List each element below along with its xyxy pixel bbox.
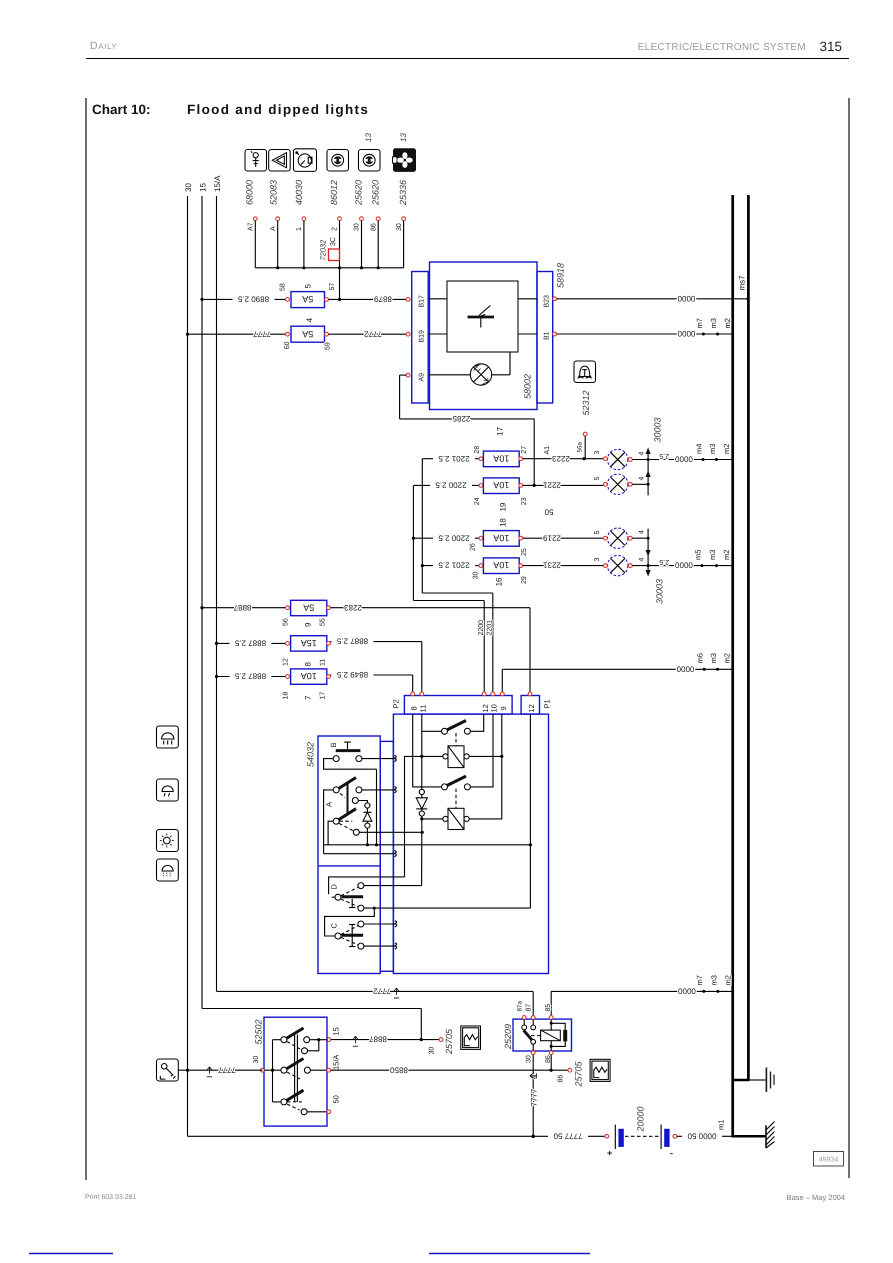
svg-text:5: 5	[594, 477, 601, 481]
svg-text:30003: 30003	[655, 579, 665, 604]
wire 7777 relay 30 to battery line	[529, 1055, 538, 1137]
svg-text:Flood and dipped lights: Flood and dipped lights	[187, 102, 369, 117]
svg-text:4: 4	[305, 317, 314, 322]
earth wire to connector P1 pin 12 (inside unit)	[374, 845, 530, 908]
connector stub 2 to 86012 through connector 72032	[332, 217, 342, 300]
lamp earth collector (down arrows)	[632, 529, 651, 577]
inline connector strip of 54032	[380, 741, 393, 971]
svg-text:8850: 8850	[390, 1065, 408, 1074]
svg-text:-: -	[670, 1148, 673, 1158]
svg-text:11: 11	[320, 659, 327, 666]
svg-text:40030: 40030	[294, 180, 304, 205]
svg-text:5A: 5A	[302, 294, 313, 304]
ignition switch 52502 internals	[253, 1027, 341, 1115]
svg-text:10: 10	[490, 704, 499, 712]
wire 0000 2.5 to bus m (m5 m3 m2)	[648, 550, 732, 570]
svg-text:A: A	[325, 802, 334, 807]
svg-text:30: 30	[428, 1047, 435, 1055]
svg-text:86: 86	[558, 1075, 565, 1083]
light switch unit box (outer)	[393, 714, 548, 973]
relay contact 2 inside light switch unit	[413, 714, 493, 808]
battery 20000	[607, 1106, 677, 1158]
svg-text:55: 55	[320, 618, 327, 626]
svg-text:m2: m2	[723, 653, 732, 663]
connector strip B23/B1 (right of 58002)	[537, 272, 553, 404]
fuse 4 (5A)	[186, 317, 332, 350]
wire 0000 B23 to bus ms7	[553, 275, 750, 303]
svg-text:0000: 0000	[675, 455, 693, 464]
svg-text:85: 85	[545, 1004, 552, 1012]
svg-text:59: 59	[325, 342, 332, 350]
fuse 18 (10A) row 2219	[412, 531, 604, 556]
svg-text:54032: 54032	[306, 742, 316, 767]
svg-text:25336: 25336	[398, 180, 408, 206]
svg-text:72032: 72032	[318, 239, 327, 261]
wire 2283 to connector P1 pin 12	[330, 603, 530, 692]
ground bus bar m (right, main)	[731, 195, 734, 1136]
svg-text:17: 17	[496, 426, 505, 435]
svg-text:87a: 87a	[516, 1000, 523, 1011]
svg-text:8: 8	[410, 706, 419, 710]
svg-text:58002: 58002	[523, 374, 533, 399]
icon box hazard triangle 52083	[268, 150, 290, 206]
svg-text:B23: B23	[544, 295, 551, 308]
svg-text:2231: 2231	[543, 561, 561, 570]
icon box heater fan 25336	[393, 149, 416, 206]
svg-text:m3: m3	[709, 653, 718, 663]
icon front fog	[157, 859, 179, 881]
svg-text:27: 27	[521, 446, 528, 454]
svg-text:4: 4	[639, 530, 646, 534]
svg-text:23: 23	[521, 497, 528, 505]
footer blue link lines	[29, 1253, 113, 1255]
svg-text:m7: m7	[695, 975, 704, 985]
connector P1	[521, 692, 551, 714]
connector stub 30 to 25336	[396, 217, 406, 268]
svg-text:m4: m4	[695, 444, 704, 454]
wire label overlays	[230, 295, 723, 1140]
svg-text:0000: 0000	[677, 329, 695, 338]
svg-text:Chart 10:: Chart 10:	[92, 102, 151, 117]
svg-text:4: 4	[639, 558, 646, 562]
svg-text:17: 17	[320, 692, 327, 700]
m1 ground link (thick)	[732, 1135, 766, 1138]
wire 2201 to connector P2 pin 10	[422, 459, 493, 693]
svg-text:m5: m5	[693, 550, 702, 560]
relay contact 1 inside light switch unit	[422, 714, 484, 746]
svg-text:15/A: 15/A	[213, 175, 222, 192]
svg-text:25705: 25705	[574, 1060, 584, 1087]
supply wire 15 (vertical)	[198, 183, 207, 1009]
svg-text:28: 28	[474, 446, 481, 454]
svg-text:50: 50	[332, 1095, 341, 1103]
svg-text:25: 25	[521, 548, 528, 556]
svg-text:87: 87	[526, 1004, 533, 1012]
svg-text:5: 5	[594, 531, 601, 535]
svg-text:A1: A1	[544, 446, 551, 455]
svg-text:18: 18	[499, 518, 508, 527]
wire 0000 relay 85 to bus m (m7 m3 m2)	[551, 975, 732, 1016]
svg-text:B19: B19	[418, 330, 425, 343]
svg-text:2283: 2283	[344, 603, 362, 612]
fuse 9 (5A) wire 8887/2283	[200, 600, 330, 627]
wire 0000 50 battery to bus m1	[677, 1120, 732, 1141]
bottom earth wire 7777 50	[188, 1131, 609, 1140]
supply wire 15/A (vertical)	[213, 175, 222, 992]
terminal 56a stub	[577, 432, 588, 459]
wire 2285	[400, 414, 535, 485]
connector P2	[392, 692, 513, 714]
connector 72032 pin 3C (red box)	[318, 237, 339, 260]
svg-text:P2: P2	[392, 699, 401, 708]
bus wire joining icon stubs	[255, 266, 403, 269]
svg-text:m3: m3	[708, 444, 717, 454]
fuse 8 (15A) wire 8887 2.5	[215, 636, 331, 667]
svg-text:3: 3	[594, 451, 601, 455]
icon side lights	[157, 830, 179, 852]
svg-text:2.5: 2.5	[659, 452, 669, 459]
right page border	[848, 98, 850, 1178]
chart title	[92, 102, 369, 117]
svg-text:15/A: 15/A	[332, 1055, 341, 1070]
svg-text:m2: m2	[722, 444, 731, 454]
wire 2200 to connector P2 pin 12	[413, 485, 485, 692]
svg-text:m3: m3	[708, 550, 717, 560]
svg-text:56a: 56a	[577, 441, 584, 452]
svg-text:20000: 20000	[636, 1106, 646, 1132]
wire 0000 B1 to bus m (m7 m3 m2)	[553, 318, 732, 338]
svg-text:5A: 5A	[302, 329, 313, 339]
relay coil 1 inside light switch unit	[405, 746, 504, 877]
svg-text:49934: 49934	[819, 1157, 839, 1164]
ignition key icon	[157, 1059, 179, 1081]
connector stub 1 to 40030	[296, 217, 306, 268]
svg-text:Print 603.93.281: Print 603.93.281	[85, 1193, 136, 1201]
header rule	[86, 58, 849, 60]
svg-text:2223: 2223	[552, 454, 570, 463]
svg-text:8: 8	[304, 662, 313, 667]
icon interior light 52312	[574, 361, 596, 416]
svg-text:10A: 10A	[493, 453, 509, 463]
svg-text:P1: P1	[543, 699, 552, 708]
svg-text:11: 11	[419, 705, 428, 713]
svg-text:2285: 2285	[452, 414, 470, 423]
svg-text:2.5: 2.5	[659, 558, 669, 565]
svg-text:57: 57	[329, 283, 336, 291]
svg-text:10A: 10A	[493, 480, 509, 490]
wire 8849 2.5 to connector P2 pin 8	[330, 670, 412, 692]
svg-text:30: 30	[354, 223, 361, 231]
svg-text:7: 7	[304, 695, 313, 700]
svg-text:3: 3	[594, 558, 601, 562]
svg-text:30: 30	[396, 223, 403, 231]
svg-text:0000: 0000	[678, 987, 696, 996]
svg-text:2201: 2201	[487, 620, 494, 636]
svg-text:m1: m1	[717, 1120, 726, 1130]
svg-text:58918: 58918	[556, 263, 566, 288]
wire switch A feed to relay line	[421, 832, 423, 885]
svg-text:m3: m3	[709, 318, 718, 328]
headlamp unit 58002 (outer box)	[430, 262, 538, 410]
svg-text:30: 30	[473, 571, 480, 579]
svg-text:A: A	[270, 226, 277, 231]
icon main beam	[157, 726, 179, 748]
svg-text:7777: 7777	[218, 1065, 236, 1074]
svg-text:8887: 8887	[233, 603, 251, 612]
svg-text:50: 50	[544, 508, 553, 517]
wire A9 to 2285	[400, 373, 410, 419]
figure number box 49934	[814, 1152, 844, 1167]
ground bus bar ms (right, second)	[747, 195, 750, 1080]
svg-text:m3: m3	[709, 975, 718, 985]
wire 7777 key icon to ignition switch	[178, 1065, 262, 1077]
rotary switch A in 54032	[324, 778, 397, 845]
relay 25209 (box)	[503, 1019, 572, 1051]
svg-text:2200 2.5: 2200 2.5	[438, 533, 470, 542]
svg-text:13: 13	[399, 133, 408, 142]
svg-text:16: 16	[494, 577, 503, 586]
svg-text:68000: 68000	[245, 180, 255, 205]
page header DAILY	[90, 40, 117, 52]
svg-text:29: 29	[521, 576, 528, 584]
lamp earth collector (up arrows)	[632, 448, 651, 496]
svg-text:58: 58	[280, 283, 287, 291]
relay 25209 internals	[522, 1019, 567, 1050]
svg-text:25705: 25705	[444, 1028, 454, 1055]
svg-text:4: 4	[639, 452, 646, 456]
fuse 19 (10A) row 2221	[413, 478, 603, 505]
svg-text:m2: m2	[723, 975, 732, 985]
wire 0000 2.5 to bus m (m4 m3 m2)	[647, 444, 732, 486]
dip switch D in 54032	[325, 877, 422, 936]
wire 15 feed to dim-dip resistor	[202, 1009, 423, 1042]
page header ELECTRIC/ELECTRONIC SYSTEM 315	[638, 39, 842, 54]
wire 7772 (15/A to relay 87)	[217, 987, 534, 1016]
fuse 17 (10A) row 2223	[422, 426, 603, 466]
headlamp 30003 right (lamps 3/5)	[594, 417, 662, 494]
bus link to earth ground	[732, 1079, 750, 1082]
svg-text:0000: 0000	[675, 561, 693, 570]
svg-text:7777: 7777	[529, 1088, 538, 1106]
svg-text:8887 2.5: 8887 2.5	[234, 639, 266, 648]
connector stub A7 to 68000	[248, 217, 258, 268]
wire 7772 fuse4 to B19	[328, 329, 410, 338]
pilot lamp inside 58002	[428, 352, 510, 385]
svg-text:30: 30	[526, 1055, 533, 1063]
icon box lamp 86012	[327, 150, 349, 206]
svg-text:30003: 30003	[653, 417, 663, 442]
fuse 7 (10A) wire 8887 2.5	[215, 669, 331, 700]
svg-text:A9: A9	[418, 373, 425, 382]
svg-text:8890 2.5: 8890 2.5	[237, 295, 269, 304]
icon box instrument cluster 40030	[294, 149, 317, 205]
svg-text:2221: 2221	[543, 481, 561, 490]
resistor 25705 (dim-dip)	[444, 1026, 481, 1055]
dip-beam element inside 58002	[428, 281, 537, 352]
earth ground symbol	[766, 1068, 774, 1093]
svg-text:15: 15	[198, 183, 207, 192]
svg-text:7777 50: 7777 50	[553, 1131, 582, 1140]
svg-text:52312: 52312	[581, 390, 591, 415]
svg-text:56: 56	[282, 618, 289, 626]
connector stub 30 to 25620	[354, 217, 364, 268]
svg-text:30: 30	[184, 183, 193, 192]
svg-text:12: 12	[282, 658, 289, 666]
svg-text:8887 2.5: 8887 2.5	[234, 672, 266, 681]
svg-text:0000: 0000	[676, 664, 694, 673]
svg-text:25209: 25209	[503, 1024, 513, 1050]
svg-text:30: 30	[253, 1056, 260, 1064]
switch module 54032 (outer box)	[306, 736, 381, 974]
icon dipped beam	[157, 779, 179, 801]
fuse 16 (10A) row 2231	[421, 558, 604, 587]
svg-text:15A: 15A	[301, 638, 317, 648]
relay 25209 pins	[516, 1000, 553, 1063]
svg-text:9: 9	[304, 622, 313, 627]
diode in 54032	[363, 803, 378, 847]
svg-text:10A: 10A	[493, 533, 509, 543]
svg-text:m6: m6	[696, 653, 705, 663]
svg-text:1: 1	[296, 227, 303, 231]
svg-text:52083: 52083	[268, 180, 278, 205]
svg-text:2200 2.5: 2200 2.5	[435, 481, 467, 490]
svg-text:ms7: ms7	[738, 275, 747, 291]
wire 8879 fuse5 to B17	[328, 295, 410, 304]
svg-text:7772: 7772	[364, 329, 382, 338]
svg-text:2200: 2200	[478, 620, 485, 636]
svg-text:2201 2.5: 2201 2.5	[438, 561, 470, 570]
svg-text:18: 18	[282, 692, 289, 700]
svg-text:B: B	[329, 742, 338, 747]
svg-text:10A: 10A	[493, 560, 509, 570]
svg-text:B1: B1	[544, 331, 551, 340]
svg-text:ELECTRIC/ELECTRONIC SYSTEM: ELECTRIC/ELECTRONIC SYSTEM	[638, 42, 806, 53]
wire 8887 2.5 to connector P2 pin 11	[330, 637, 421, 693]
chassis ground symbol	[766, 1122, 775, 1149]
svg-text:7777: 7777	[253, 329, 271, 338]
wire 0000 P2 pin 9 to bus m (m6 m3 m2)	[502, 653, 732, 692]
svg-text:8849 2.5: 8849 2.5	[336, 670, 368, 679]
svg-text:2: 2	[332, 227, 339, 231]
icon box ignition key 68000	[245, 150, 267, 206]
connector stub 86 to 25620	[370, 217, 380, 268]
svg-text:3C: 3C	[330, 237, 337, 246]
svg-text:10A: 10A	[301, 671, 317, 681]
icon box lamp 25620	[354, 150, 381, 207]
wire from switch A to dim-dip relay line	[359, 831, 424, 834]
svg-text:12: 12	[527, 704, 536, 712]
fuse 5 (5A)	[200, 283, 336, 308]
svg-text:86: 86	[370, 223, 377, 231]
svg-text:15: 15	[332, 1027, 341, 1035]
headlamp 30003 left (lamps 5/3)	[594, 528, 664, 604]
svg-text:m2: m2	[722, 550, 731, 560]
wire 8887 to resistor 25705 terminal 30	[327, 1035, 443, 1055]
svg-text:4: 4	[639, 477, 646, 481]
svg-text:+: +	[607, 1148, 612, 1158]
supply wire 30 (vertical)	[184, 183, 193, 1137]
svg-text:5A: 5A	[303, 602, 314, 612]
svg-text:60: 60	[284, 341, 291, 349]
svg-text:25620: 25620	[371, 180, 381, 206]
push button B in 54032	[324, 742, 397, 845]
wire 8850 ignition switch to relay 86	[331, 1065, 572, 1082]
ignition switch 52502 (box)	[254, 1017, 328, 1126]
svg-text:0000 50: 0000 50	[687, 1131, 716, 1140]
connector stub A to 52083	[270, 217, 280, 268]
svg-text:0000: 0000	[677, 294, 695, 303]
wire relay 86 down to 8850 row	[550, 1055, 552, 1071]
svg-text:8887 2.5: 8887 2.5	[336, 637, 368, 646]
svg-text:2219: 2219	[543, 533, 561, 542]
svg-text:C: C	[330, 923, 339, 929]
svg-text:86012: 86012	[329, 180, 339, 205]
resistor 25705 (second)	[574, 1059, 611, 1087]
svg-text:m7: m7	[695, 318, 704, 328]
left page border	[85, 98, 87, 1180]
flash switch C in 54032	[330, 921, 397, 949]
svg-text:DAILY: DAILY	[90, 40, 117, 52]
svg-text:8879: 8879	[374, 295, 392, 304]
svg-text:13: 13	[364, 133, 373, 142]
svg-text:A7: A7	[248, 222, 255, 231]
svg-text:24: 24	[474, 497, 481, 505]
svg-text:2201 2.5: 2201 2.5	[438, 454, 470, 463]
svg-text:26: 26	[470, 543, 477, 551]
svg-text:m2: m2	[723, 318, 732, 328]
common earth wire of 54032 (bottom)	[324, 714, 532, 857]
svg-text:7772: 7772	[373, 987, 391, 996]
svg-text:9: 9	[499, 706, 508, 710]
diode inside light switch unit	[416, 731, 427, 832]
svg-text:D: D	[330, 884, 339, 890]
svg-text:B17: B17	[418, 295, 425, 308]
relay coil 2 inside light switch unit	[420, 714, 502, 829]
svg-text:5: 5	[303, 284, 312, 289]
svg-text:Base – May 2004: Base – May 2004	[787, 1193, 845, 1202]
svg-text:19: 19	[499, 502, 508, 511]
connector strip B (left of 58002)	[412, 272, 429, 404]
svg-text:52502: 52502	[254, 1019, 264, 1044]
svg-text:8887: 8887	[369, 1035, 387, 1044]
svg-text:25620: 25620	[354, 180, 364, 206]
svg-text:315: 315	[819, 39, 842, 54]
